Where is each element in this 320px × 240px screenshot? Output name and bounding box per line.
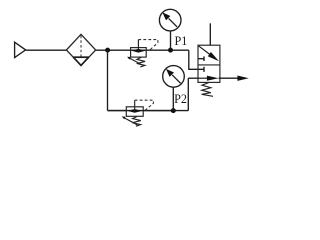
svg-text:P2: P2	[174, 92, 187, 106]
wire source to filter	[26, 49, 67, 51]
gauge P2 stem	[172, 87, 174, 110]
valve V1 divider	[198, 64, 220, 66]
wire filter to junction A	[96, 49, 131, 51]
regulator R1 pilot stem	[137, 40, 139, 51]
filter water separator chord	[73, 56, 88, 58]
wire regulator R1 to valve branch	[146, 49, 189, 51]
wire through regulator R1	[131, 49, 147, 51]
wire riser elbow to valve lower port	[188, 77, 198, 79]
gauge P2 needle	[166, 69, 181, 83]
node A junction dot	[105, 48, 110, 53]
wire junction A down to bottom rail	[107, 50, 109, 110]
regulator R2 spring	[132, 117, 140, 127]
filter separator triangle edges	[73, 57, 88, 65]
svg-text:P1: P1	[175, 34, 188, 48]
regulator R1 dashed pilot line	[138, 40, 158, 50]
gauge P1 dial	[159, 9, 181, 31]
gauge P1 needle	[162, 12, 177, 26]
gauge P1 stem	[170, 31, 172, 50]
gauge P2 dial	[163, 66, 185, 88]
node C junction dot gauge P2 tap	[171, 108, 176, 113]
regulator R2 double arrow	[127, 109, 142, 113]
regulator R1 adjustment arrow	[127, 57, 143, 66]
filter dashed center line	[80, 36, 82, 57]
valve V1 upper box diagonal flow arrow	[198, 46, 219, 62]
valve V1 lower box flow arrow	[198, 76, 219, 81]
node B junction dot gauge P1 tap	[168, 48, 173, 53]
wire branch down into valve port	[189, 50, 204, 69]
regulator R1 double arrow	[132, 49, 146, 53]
regulator R2 dashed pilot line	[135, 100, 154, 110]
wire valve exhaust line	[219, 77, 238, 79]
compressed air source triangle	[15, 42, 26, 57]
regulator R2 adjustment arrow	[122, 116, 138, 125]
valve V1 return spring	[202, 83, 213, 97]
regulator R1 body	[131, 48, 147, 58]
valve V1 outer body	[198, 45, 220, 82]
riser wire rail to valve input	[187, 78, 189, 110]
wire through regulator R2	[108, 110, 174, 112]
regulator R2 pilot stem	[134, 100, 136, 111]
bottom rail wire	[108, 110, 189, 112]
valve V1 blocked port T-bar lower box	[203, 67, 205, 72]
regulator R1 spring	[137, 57, 145, 67]
filter F1 diamond body	[66, 34, 95, 65]
valve V1 upper box blocked port	[198, 56, 204, 61]
exhaust direction arrowhead	[237, 76, 248, 81]
valve V1 top port line	[209, 23, 211, 45]
regulator R2 body	[126, 107, 143, 117]
